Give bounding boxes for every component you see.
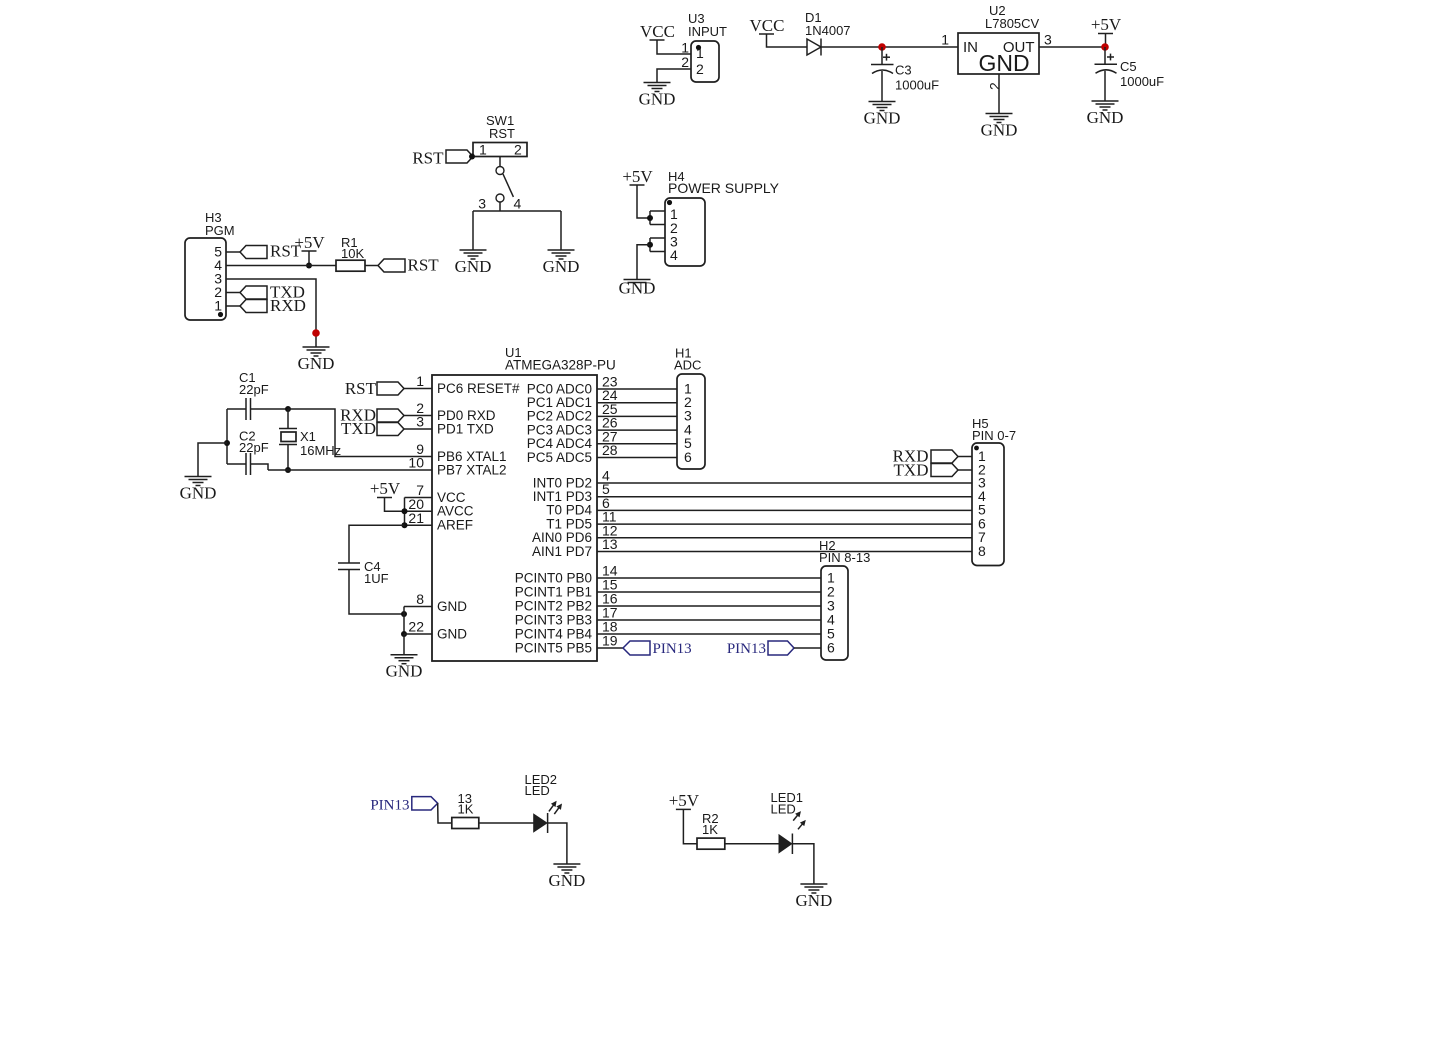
capacitor C5 1000uF	[1095, 47, 1165, 101]
svg-text:PIN 0-7: PIN 0-7	[972, 428, 1016, 443]
power symbol +5V (U2 output)	[1091, 15, 1122, 34]
wire contact stub	[499, 202, 501, 211]
svg-text:GND: GND	[543, 257, 580, 276]
wire U1 pin20 AVCC	[405, 510, 433, 512]
svg-text:PIN 8-13: PIN 8-13	[819, 550, 870, 565]
ground (LED2)	[548, 864, 585, 890]
junction on GND wire (red)	[312, 329, 320, 337]
svg-text:8: 8	[416, 591, 424, 607]
net flag RST (R1)	[378, 256, 439, 275]
svg-text:GND: GND	[180, 484, 217, 503]
wire U1 pin22 GND	[404, 633, 432, 635]
capacitor C1 22pF	[239, 370, 269, 420]
svg-text:6: 6	[684, 449, 692, 465]
ground (H3)	[298, 347, 335, 373]
svg-text:INPUT: INPUT	[688, 24, 727, 39]
ground (SW1 pin4)	[543, 250, 580, 276]
junction AREF	[402, 522, 408, 528]
svg-text:ATMEGA328P-PU: ATMEGA328P-PU	[505, 358, 616, 373]
svg-text:RST: RST	[412, 149, 444, 168]
svg-text:GND: GND	[437, 626, 467, 641]
svg-text:1: 1	[479, 142, 487, 158]
wire C2 left	[227, 463, 246, 465]
svg-text:PIN13: PIN13	[370, 798, 409, 814]
svg-text:2: 2	[681, 54, 689, 70]
capacitor C2 22pF	[239, 429, 269, 476]
svg-text:3: 3	[1044, 32, 1052, 48]
wire U1 pin 25 to H1 pin 3	[597, 415, 677, 417]
svg-text:AREF: AREF	[437, 518, 473, 533]
svg-text:1000uF: 1000uF	[1120, 74, 1164, 89]
svg-text:10K: 10K	[341, 246, 364, 261]
connector H2 PIN 8-13	[819, 538, 870, 660]
power symbol +5V (U1)	[370, 479, 401, 498]
svg-text:AVCC: AVCC	[437, 504, 474, 519]
wire U1 pin 18 to H2 pin 5	[597, 633, 821, 635]
svg-text:RST: RST	[408, 256, 440, 275]
wire +5V stub H3	[308, 251, 310, 266]
svg-text:PCINT5 PB5: PCINT5 PB5	[515, 640, 592, 655]
wire +5V to R2	[683, 809, 697, 843]
U1 right pin names	[515, 381, 593, 655]
wire U1 pin 12 to H5 pin 7	[597, 537, 972, 539]
svg-text:TXD: TXD	[341, 419, 376, 438]
ground (crystal caps)	[180, 477, 217, 503]
svg-text:6: 6	[827, 639, 835, 655]
wire C1-C2 tie	[226, 409, 228, 464]
net flag TXD (H5 pin2)	[894, 461, 958, 480]
wire SW1 pin1 to contact	[499, 157, 501, 167]
wire VCC/AVCC/AREF tie	[404, 498, 406, 526]
wire U1 pin 26 to H1 pin 4	[597, 429, 677, 431]
power symbol VCC (D1 input)	[750, 16, 785, 35]
svg-text:8: 8	[978, 543, 986, 559]
wire U1 pin21 AREF	[405, 524, 433, 526]
wire H4 pin1-pin2 tie	[649, 211, 651, 225]
net flag RXD (H3 pin1)	[240, 296, 306, 315]
ground (H4)	[619, 279, 656, 298]
svg-text:GND: GND	[437, 599, 467, 614]
wire to ground symbol	[403, 634, 405, 655]
svg-text:3: 3	[478, 196, 486, 212]
svg-text:PCINT3 PB3: PCINT3 PB3	[515, 612, 592, 627]
junction H4 +5V	[647, 215, 653, 221]
wire RXD to H5 pin1	[958, 456, 972, 458]
wire U1 pin 28 to H1 pin 6	[597, 457, 677, 459]
net flag PIN13 (U1 pin 19)	[623, 641, 692, 657]
connector H1 ADC	[674, 346, 705, 470]
svg-text:RXD: RXD	[270, 296, 306, 315]
svg-text:21: 21	[408, 510, 424, 526]
svg-text:PB7 XTAL2: PB7 XTAL2	[437, 462, 507, 477]
LED LED2	[525, 772, 562, 833]
ground (U2)	[981, 114, 1018, 140]
svg-text:+5V: +5V	[669, 791, 700, 810]
svg-text:PC6 RESET#: PC6 RESET#	[437, 381, 520, 396]
svg-text:GND: GND	[548, 871, 585, 890]
wire U1 pin 17 to H2 pin 4	[597, 619, 821, 621]
power symbol VCC (U3)	[640, 22, 675, 41]
wire U1 pin 23 to H1 pin 1	[597, 388, 677, 390]
wire SW1 pins 3-4 bus	[473, 210, 561, 212]
wire H3 pin4 to R1	[226, 265, 336, 267]
wire TXD to U1 pin3	[404, 428, 432, 430]
power symbol +5V (H4)	[622, 167, 653, 186]
wire PIN13 flag to resistor 13	[438, 803, 452, 823]
wire U1 pin8 GND	[404, 606, 432, 608]
net flag RXD (U1 pin2)	[340, 406, 404, 425]
junction GND pin8	[401, 611, 407, 617]
wire U1 pin 24 to H1 pin 2	[597, 402, 677, 404]
wire U3 pin 2 to GND	[657, 69, 691, 83]
wire XTAL2 to U1 pin10	[268, 469, 432, 471]
wire to GND (crystal)	[198, 443, 227, 477]
wire H4 pin 2	[650, 224, 665, 226]
LED LED1	[771, 790, 806, 854]
junction XTAL2 node	[285, 467, 291, 473]
ground (C5)	[1087, 101, 1124, 127]
ground (SW1 pin3)	[455, 250, 492, 276]
wire XTAL1 to U1 pin9	[288, 409, 432, 457]
wire RXD to U1 pin2	[404, 415, 432, 417]
junction C3 tap (red)	[878, 43, 886, 51]
wire C1 right	[251, 408, 289, 410]
svg-text:L7805CV: L7805CV	[985, 16, 1040, 31]
capacitor C4 1UF	[338, 559, 389, 586]
svg-text:1: 1	[214, 297, 222, 313]
junction +5V/C5 (red)	[1101, 43, 1109, 51]
wire H4 pin 4	[650, 251, 665, 253]
wire U1 pin 11 to H5 pin 6	[597, 523, 972, 525]
svg-text:1N4007: 1N4007	[805, 23, 851, 38]
svg-text:4: 4	[670, 247, 678, 263]
wire resistor to LED2	[479, 822, 534, 824]
diode D1 1N4007	[805, 10, 851, 56]
wire LED2 cathode to GND	[548, 823, 567, 864]
junction SW1 pin1	[469, 154, 475, 160]
U1 left pin names	[437, 381, 520, 642]
wire U1 pin 15 to H2 pin 2	[597, 591, 821, 593]
wire +5V to AVCC node	[385, 498, 405, 512]
svg-text:2: 2	[696, 61, 704, 77]
MCU U1 ATMEGA328P-PU	[432, 345, 616, 661]
resistor 13 1K	[452, 791, 479, 829]
wire H3 pin1	[226, 305, 240, 307]
svg-text:GND: GND	[619, 279, 656, 298]
svg-text:1: 1	[416, 373, 424, 389]
wire U1 pin 16 to H2 pin 3	[597, 605, 821, 607]
svg-text:22pF: 22pF	[239, 382, 269, 397]
wire H3 pin3 to GND	[226, 279, 316, 347]
net flag RST (U1 pin1)	[345, 379, 404, 398]
capacitor C3 1000uF	[871, 47, 939, 102]
svg-text:1UF: 1UF	[364, 571, 389, 586]
svg-text:10: 10	[408, 455, 424, 471]
net flag PIN13 (LED2 drive)	[370, 797, 437, 814]
wire U1 pin 27 to H1 pin 5	[597, 443, 677, 445]
U1 left pin numbers	[408, 373, 424, 635]
wire +5V stub	[1105, 34, 1107, 48]
net flag RXD (H5 pin1)	[893, 447, 958, 466]
wire U1 pin 4 to H5 pin 3	[597, 482, 972, 484]
svg-text:LED: LED	[525, 783, 550, 798]
svg-text:GND: GND	[386, 662, 423, 681]
svg-text:+5V: +5V	[622, 167, 653, 186]
regulator U2 L7805CV	[958, 3, 1040, 76]
ground (U3)	[639, 83, 676, 109]
svg-text:GND: GND	[298, 354, 335, 373]
svg-text:VCC: VCC	[640, 22, 675, 41]
resistor R2 1K	[697, 811, 725, 849]
svg-text:C3: C3	[895, 63, 912, 78]
wire U2 GND pin down	[998, 74, 1000, 114]
wire SW1 pin3 to GND	[472, 211, 474, 250]
wire U1 pin 19 to PIN13 flag	[597, 647, 623, 649]
wire H3 pin5	[226, 251, 240, 253]
wire U2 OUT to +5V node	[1039, 46, 1105, 48]
wire U1 pin7 VCC	[405, 497, 433, 499]
svg-text:GND: GND	[981, 121, 1018, 140]
svg-text:+5V: +5V	[1091, 15, 1122, 34]
svg-text:1: 1	[696, 45, 704, 61]
svg-text:4: 4	[514, 196, 522, 212]
svg-text:RST: RST	[489, 126, 515, 141]
svg-text:PCINT0 PB0: PCINT0 PB0	[515, 570, 592, 585]
wire TXD to H5 pin2	[958, 469, 972, 471]
switch SW1 RST	[473, 113, 527, 158]
junction C1/C2 GND tap	[224, 440, 230, 446]
wire +5V to H4 pins 1-2	[637, 185, 650, 218]
net flag TXD (U1 pin3)	[341, 419, 404, 438]
svg-text:1K: 1K	[458, 802, 474, 817]
wire U1 pin 13 to H5 pin 8	[597, 551, 972, 553]
svg-text:PGM: PGM	[205, 223, 235, 238]
svg-text:RST: RST	[345, 379, 377, 398]
wire R2 to LED1	[725, 843, 779, 845]
svg-text:PCINT1 PB1: PCINT1 PB1	[515, 584, 592, 599]
wire C1 left	[227, 408, 246, 410]
wire R1 to RST flag	[365, 265, 378, 267]
wire D1 cathode to U2 IN	[821, 46, 958, 48]
svg-text:+5V: +5V	[294, 233, 325, 252]
net flag PIN13 (to H2 pin 6)	[727, 641, 794, 657]
net flag TXD (H3 pin2)	[240, 283, 305, 302]
ground (LED1)	[795, 884, 832, 910]
junction H4 GND	[647, 242, 653, 248]
svg-text:22pF: 22pF	[239, 440, 269, 455]
wire H4 pin 1	[650, 210, 665, 212]
ground (C3)	[864, 102, 901, 128]
wire LED1 cathode to GND	[792, 844, 814, 884]
svg-text:PC5 ADC5: PC5 ADC5	[527, 450, 592, 465]
svg-text:16MHz: 16MHz	[300, 443, 341, 458]
svg-text:PCINT4 PB4: PCINT4 PB4	[515, 626, 593, 641]
svg-text:19: 19	[602, 633, 618, 649]
wire C4 to GND node	[349, 570, 404, 615]
svg-text:1000uF: 1000uF	[895, 78, 939, 93]
wire VCC to D1 anode	[767, 34, 808, 47]
net flag RST (H3 pin5)	[240, 242, 302, 261]
wire U1 pin 14 to H2 pin 1	[597, 577, 821, 579]
wire U1 pin 6 to H5 pin 5	[597, 509, 972, 511]
wire RST to U1 pin1	[404, 388, 432, 390]
svg-text:PCINT2 PB2: PCINT2 PB2	[515, 598, 592, 613]
junction H3 pin4/+5V	[306, 263, 312, 269]
wire H4 pin3-pin4 tie	[649, 238, 651, 252]
junction XTAL1 node	[285, 406, 291, 412]
wire AREF to C4	[349, 525, 405, 563]
resistor R1 10K	[336, 235, 365, 271]
svg-text:GND: GND	[795, 891, 832, 910]
svg-text:VCC: VCC	[437, 490, 466, 505]
wire PIN13 to H2 pin6	[794, 647, 821, 649]
switch contact circle (bottom)	[496, 194, 504, 202]
connector H3 PGM	[185, 210, 235, 320]
crystal X1 16MHz	[279, 409, 341, 470]
svg-text:PIN13: PIN13	[727, 641, 766, 657]
svg-text:GND: GND	[639, 90, 676, 109]
svg-text:AIN1 PD7: AIN1 PD7	[532, 544, 592, 559]
svg-text:IN: IN	[963, 39, 978, 56]
svg-text:ADC: ADC	[674, 358, 701, 373]
svg-text:TXD: TXD	[894, 461, 929, 480]
power symbol +5V (H3)	[294, 233, 325, 252]
svg-text:POWER SUPPLY: POWER SUPPLY	[668, 180, 780, 196]
connector U3	[688, 11, 727, 82]
wire H4 pin 3	[650, 237, 665, 239]
net flag RST (to SW1 pin 1)	[412, 149, 473, 168]
power symbol +5V (LED1)	[669, 791, 700, 810]
svg-text:1: 1	[941, 32, 949, 48]
wire VCC to U3 pin 1	[657, 40, 691, 54]
svg-text:PD1 TXD: PD1 TXD	[437, 421, 494, 436]
switch contact circle (top)	[496, 167, 504, 175]
connector H5 PIN 0-7	[972, 416, 1016, 566]
junction AVCC	[402, 508, 408, 514]
ground (U1)	[386, 655, 423, 681]
svg-text:GND: GND	[864, 109, 901, 128]
wire U1 pin 5 to H5 pin 4	[597, 496, 972, 498]
wire GND tie	[403, 607, 405, 635]
svg-text:22: 22	[408, 619, 424, 635]
wire C2 right	[251, 464, 269, 470]
svg-text:+5V: +5V	[370, 479, 401, 498]
svg-text:2: 2	[514, 142, 522, 158]
svg-text:X1: X1	[300, 429, 316, 444]
wire SW1 pin4 to GND	[560, 211, 562, 250]
switch arm	[503, 174, 513, 197]
svg-text:LED: LED	[771, 802, 796, 817]
U1 right pin numbers	[602, 374, 618, 649]
connector H4 POWER SUPPLY	[665, 169, 780, 266]
svg-text:3: 3	[416, 414, 424, 430]
svg-text:VCC: VCC	[750, 16, 785, 35]
junction GND pin22	[401, 631, 407, 637]
svg-text:GND: GND	[455, 257, 492, 276]
svg-text:PIN13: PIN13	[653, 641, 692, 657]
svg-text:1K: 1K	[702, 822, 718, 837]
svg-text:2: 2	[987, 82, 1003, 90]
wire H4 to GND	[637, 245, 650, 280]
wire H3 pin2	[226, 292, 240, 294]
svg-text:C5: C5	[1120, 59, 1137, 74]
svg-text:GND: GND	[978, 50, 1029, 76]
svg-text:GND: GND	[1087, 108, 1124, 127]
